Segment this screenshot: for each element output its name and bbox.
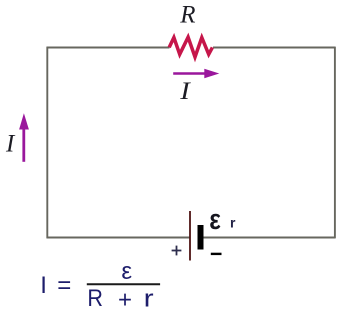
wire left side — [46, 47, 48, 239]
svg-text:ε: ε — [209, 203, 221, 235]
svg-text:r: r — [230, 215, 236, 231]
svg-text:R: R — [87, 284, 103, 311]
equation fraction bar — [87, 283, 160, 285]
battery positive plate (thin, long) — [189, 211, 191, 261]
current arrow I (top, pointing right) — [173, 69, 219, 79]
svg-text:r: r — [144, 284, 154, 311]
svg-text:I: I — [40, 272, 47, 299]
wire top-right segment — [213, 47, 336, 49]
svg-text:=: = — [57, 272, 71, 299]
wire top-left segment — [47, 47, 170, 49]
battery minus sign — [211, 253, 222, 255]
wire right side — [334, 47, 336, 239]
svg-text:+: + — [118, 286, 132, 313]
current arrow I (left, pointing up) — [19, 113, 29, 162]
resistor R — [169, 37, 212, 57]
svg-text:I: I — [179, 77, 192, 105]
battery negative plate (thick, short) — [198, 225, 204, 250]
svg-text:ε: ε — [121, 258, 132, 285]
svg-text:R: R — [179, 2, 195, 29]
wire bottom-right segment — [203, 237, 336, 239]
battery plus sign — [172, 246, 182, 256]
svg-text:I: I — [5, 131, 16, 158]
wire bottom-left segment — [47, 237, 191, 239]
